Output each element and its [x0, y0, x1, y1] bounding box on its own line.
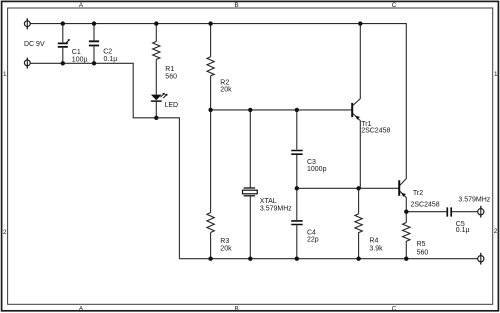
svg-text:560: 560 — [417, 249, 429, 256]
svg-text:C1: C1 — [72, 49, 81, 56]
svg-text:LED: LED — [165, 102, 179, 109]
svg-text:Tr2: Tr2 — [413, 190, 423, 197]
svg-text:1: 1 — [494, 71, 498, 78]
svg-text:0.1µ: 0.1µ — [456, 227, 470, 234]
svg-text:B: B — [234, 2, 238, 9]
svg-text:560: 560 — [165, 74, 177, 81]
svg-text:20k: 20k — [220, 87, 232, 94]
svg-text:2: 2 — [494, 228, 498, 235]
svg-text:100µ: 100µ — [72, 56, 88, 63]
svg-text:R3: R3 — [220, 238, 229, 245]
svg-text:C2: C2 — [103, 48, 112, 55]
svg-text:2: 2 — [3, 229, 7, 236]
svg-text:R4: R4 — [369, 238, 378, 245]
svg-text:R5: R5 — [417, 241, 426, 248]
svg-text:C: C — [392, 305, 397, 312]
svg-text:C: C — [392, 2, 397, 9]
svg-text:XTAL: XTAL — [260, 198, 277, 205]
svg-text:3.579MHz: 3.579MHz — [260, 205, 292, 212]
svg-text:20k: 20k — [220, 246, 232, 253]
svg-text:0.1µ: 0.1µ — [104, 56, 118, 63]
svg-text:C3: C3 — [307, 159, 316, 166]
svg-text:3.579MHz: 3.579MHz — [458, 196, 490, 203]
svg-text:1: 1 — [3, 71, 7, 78]
svg-text:1000p: 1000p — [307, 166, 327, 173]
svg-text:3.9k: 3.9k — [369, 245, 383, 252]
svg-text:2SC2458: 2SC2458 — [411, 201, 440, 208]
svg-text:2SC2458: 2SC2458 — [361, 127, 390, 134]
svg-text:22p: 22p — [307, 237, 319, 244]
svg-text:R2: R2 — [220, 80, 229, 87]
svg-text:R1: R1 — [165, 66, 174, 73]
svg-text:C4: C4 — [307, 230, 316, 237]
svg-text:DC 9V: DC 9V — [24, 41, 45, 48]
svg-text:B: B — [234, 305, 238, 312]
